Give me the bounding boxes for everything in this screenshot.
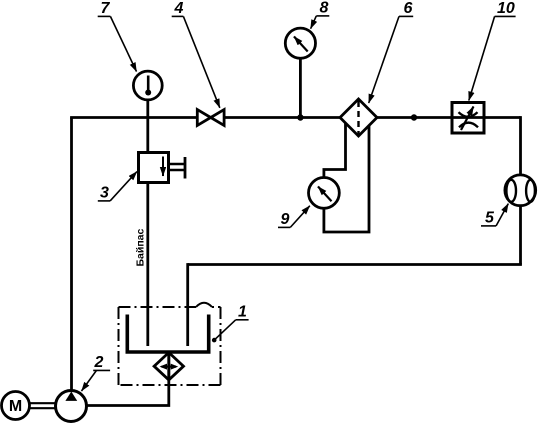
svg-text:8: 8 [320,0,329,17]
svg-text:7: 7 [101,0,111,17]
svg-text:10: 10 [497,0,515,17]
pressure gauge (pos.8): circle with needle [285,28,315,58]
thermometer (pos.7): circle with stem and bulb [133,71,162,100]
svg-text:9: 9 [281,211,290,228]
wire: pump discharge riser (left vertical) [70,118,73,393]
strainer in tank suction: diamond with double arrow [167,352,170,380]
filter (pos.6): diamond with dashed axis [340,99,377,136]
svg-text:6: 6 [404,0,413,17]
node: junction dot before throttle 10 [411,114,417,120]
wire: gauge 9 loop bottom and right branch [324,125,369,232]
pump (pos.2): circle with upward solid triangle [56,391,87,422]
tank B1 (pos.1): open reservoir [127,315,208,353]
motor M: circle with letter M [2,392,30,420]
shut-off valve (pos.4): bowtie [197,110,210,126]
wire: top rail [70,116,520,119]
wire: thermometer stem / bypass line down to tank [146,86,149,347]
overflow valve / pressure regulator (pos.3): box with down arrow and tee [169,163,186,165]
adjustable throttle (pos.10): box with restrictor and arrow [452,103,484,134]
wire: right vertical through flowmeter [519,116,522,264]
svg-text:1: 1 [238,304,247,321]
svg-text:4: 4 [174,0,184,17]
node: junction dot at gauge 8 tap [297,114,303,120]
svg-text:Байпас: Байпас [135,228,147,266]
differential pressure gauge (pos.9): circle with needle [309,178,340,209]
wire: return drop into tank [186,263,189,346]
svg-text:M: M [9,398,22,415]
enclosure: hump in dash-dot top edge [196,303,212,307]
wire: motor-pump coupling (double line) [29,402,56,404]
flow meter (pos.5): circle with two inner ellipses [505,175,536,206]
svg-text:3: 3 [100,185,109,202]
wire: filter to gauge 9 loop (left branch) [324,123,346,233]
enclosure: dash-dot boundary of tank unit [119,307,221,385]
wire: gauge 8 stem [299,43,302,118]
svg-text:5: 5 [485,210,495,227]
wire: return line bottom [188,263,522,266]
wire: pump suction from strainer [86,352,169,406]
svg-text:2: 2 [94,354,104,371]
